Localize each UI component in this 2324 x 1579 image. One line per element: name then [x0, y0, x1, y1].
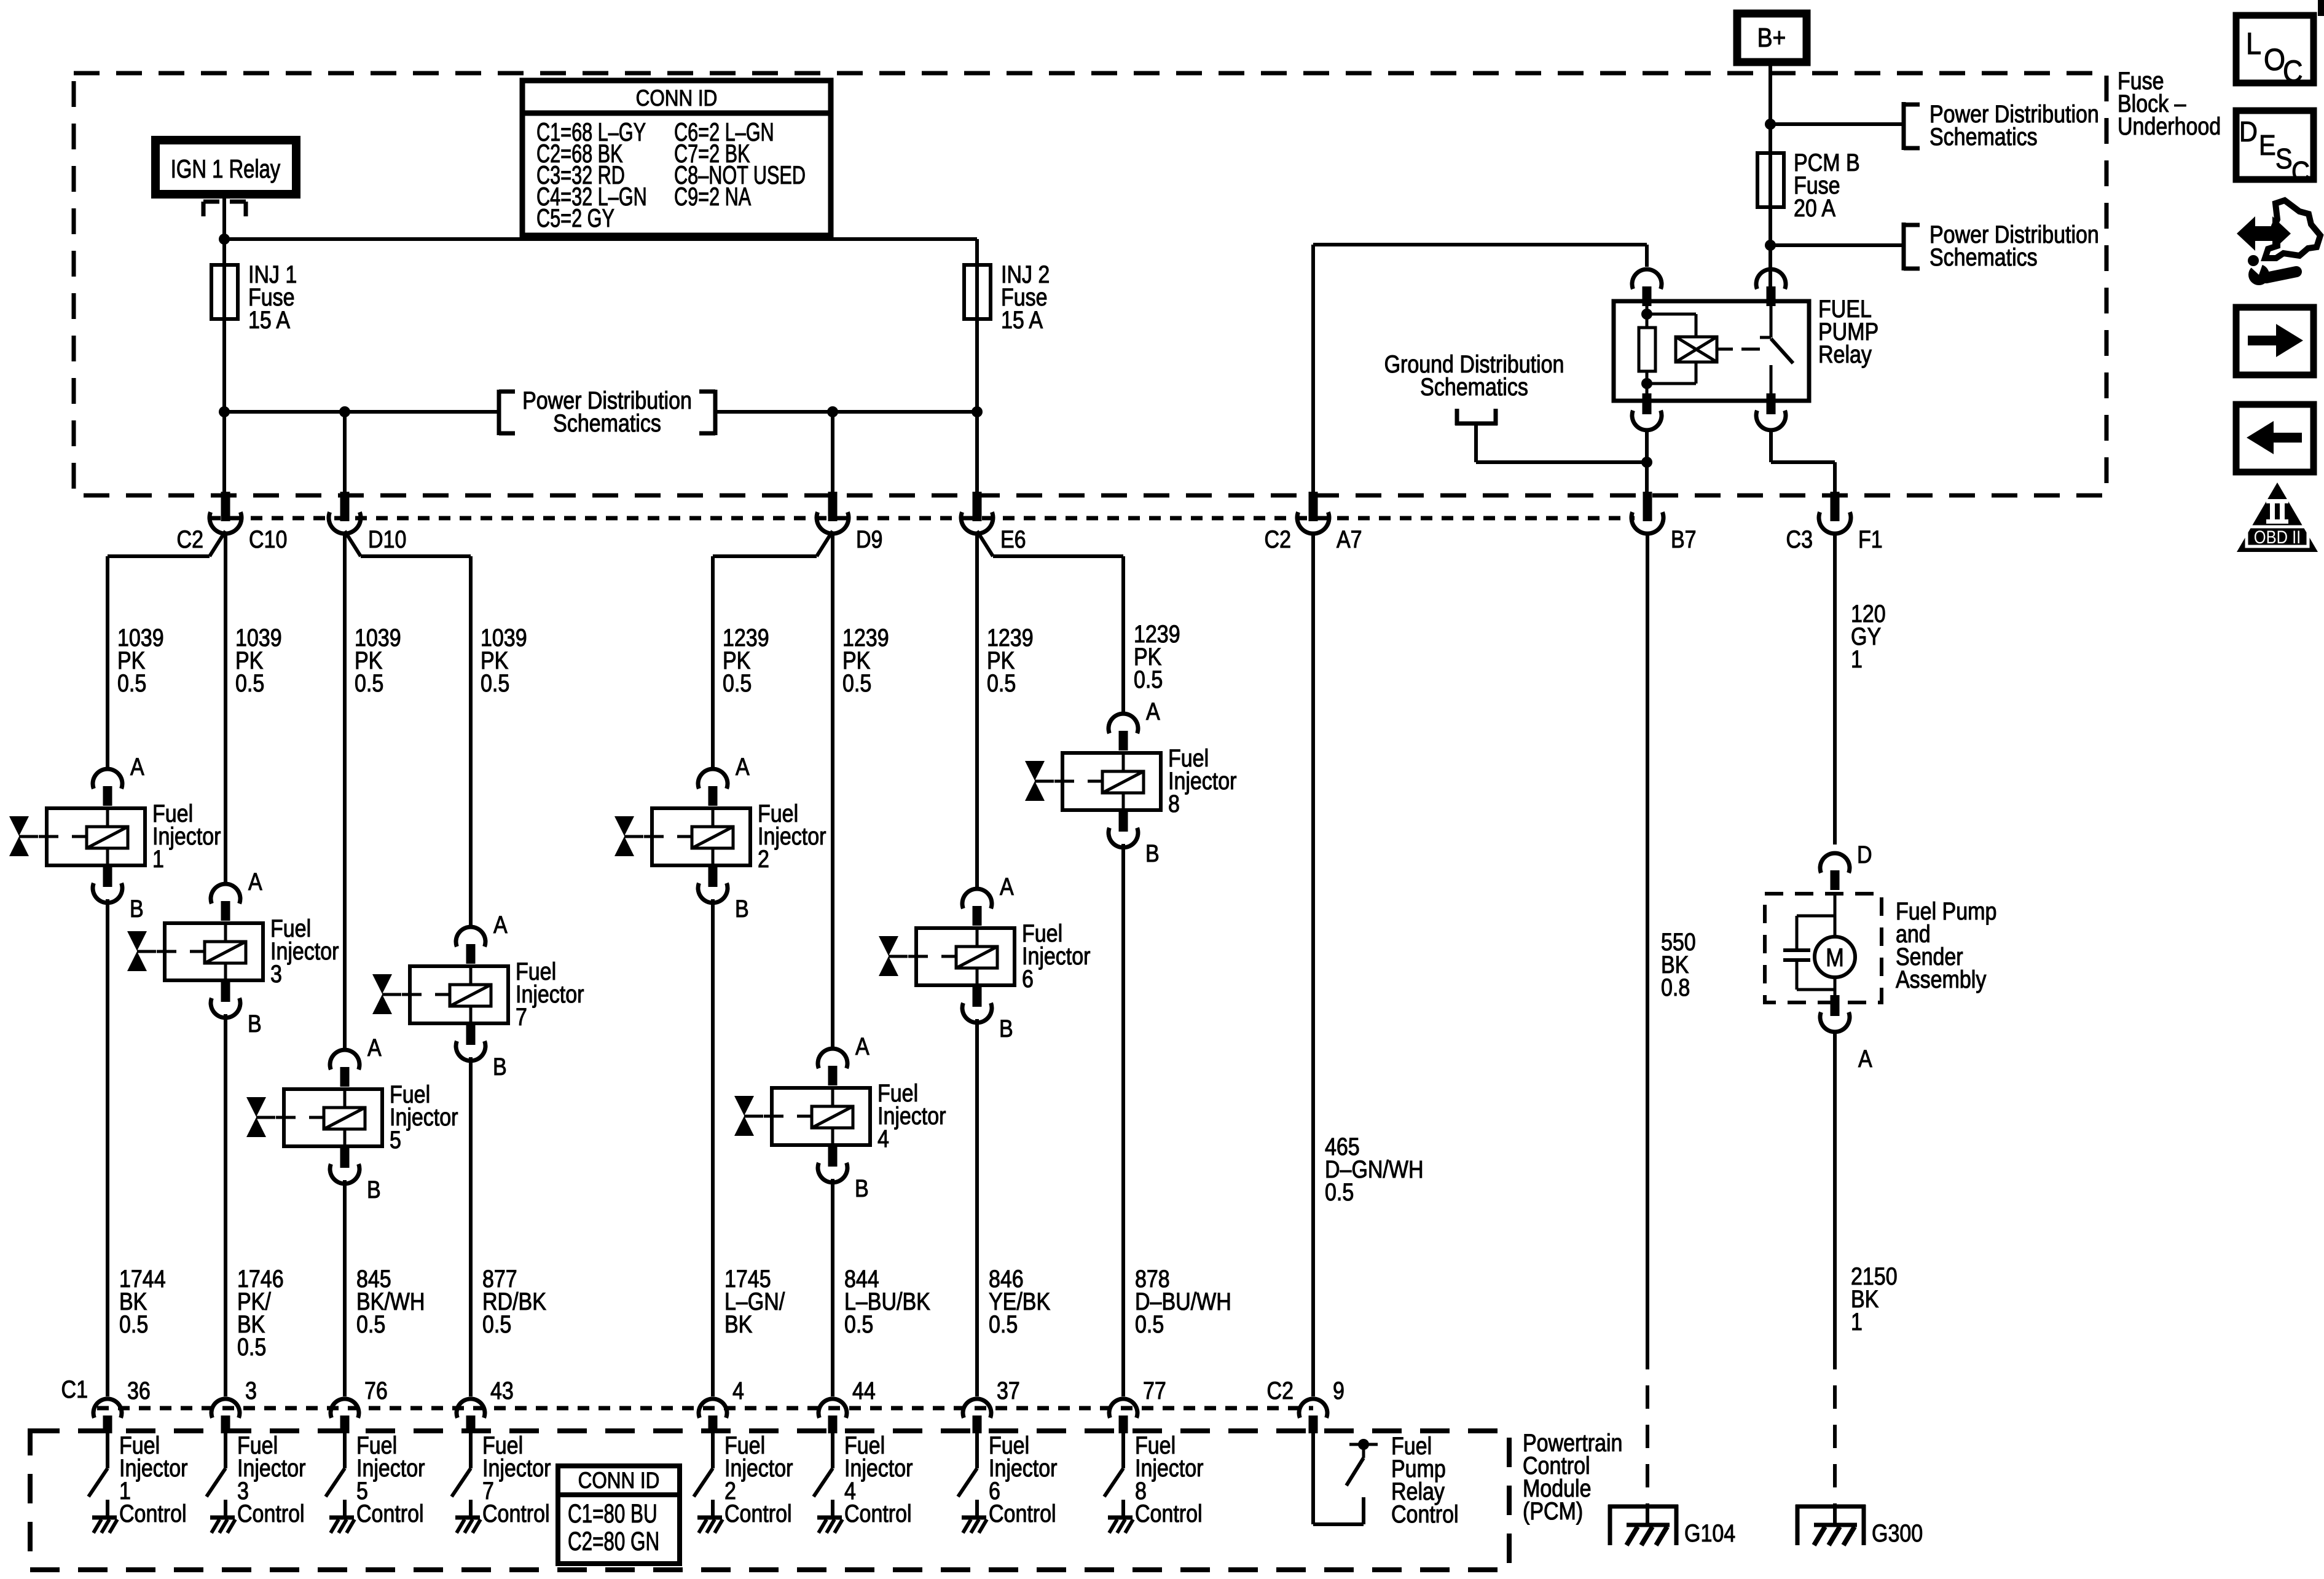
svg-text:B: B — [1145, 839, 1160, 867]
ground (PCM internal) — [817, 1516, 842, 1520]
svg-text:IGN 1 Relay: IGN 1 Relay — [171, 154, 281, 183]
svg-text:E: E — [2259, 130, 2276, 162]
svg-text:0.5: 0.5 — [723, 669, 752, 696]
svg-text:A: A — [1858, 1044, 1872, 1072]
svg-text:O: O — [2264, 43, 2285, 77]
svg-text:B: B — [999, 1014, 1013, 1042]
svg-text:C9=2 NA: C9=2 NA — [674, 182, 752, 211]
svg-text:S: S — [2275, 143, 2293, 175]
svg-text:B: B — [855, 1174, 869, 1202]
connector D10 — [340, 492, 350, 521]
wire to INJ 2 fuse — [224, 237, 977, 241]
svg-text:C2=80 GN: C2=80 GN — [568, 1526, 659, 1556]
svg-text:C1: C1 — [61, 1375, 88, 1403]
fuel injector 6 pin A — [962, 889, 992, 908]
previous page icon — [2236, 404, 2314, 472]
DESC icon — [2236, 111, 2314, 179]
svg-text:0.5: 0.5 — [482, 1310, 511, 1337]
junction — [1641, 378, 1652, 389]
fuel injector 8 — [1062, 753, 1161, 810]
fuel injector 2 pin A — [698, 769, 728, 789]
PCM fuel injector driver pin 37 — [975, 1433, 979, 1468]
svg-text:0.5: 0.5 — [235, 669, 264, 696]
svg-text:44: 44 — [852, 1376, 876, 1404]
svg-text:Control: Control — [844, 1499, 912, 1527]
fuse INJ 2 — [964, 265, 991, 319]
svg-text:1: 1 — [1851, 645, 1863, 672]
svg-text:B: B — [248, 1009, 262, 1037]
svg-text:4: 4 — [732, 1376, 744, 1404]
svg-text:CONN ID: CONN ID — [578, 1468, 660, 1494]
svg-text:0.5: 0.5 — [119, 1310, 148, 1337]
wire to injector 5 — [343, 532, 347, 1049]
fuel injector 3 — [165, 923, 263, 980]
wire to injector 3 — [224, 532, 227, 883]
svg-text:C3: C3 — [1786, 525, 1813, 553]
svg-text:Control: Control — [356, 1499, 424, 1527]
wire injector 3 to PCM 3 — [224, 1014, 227, 1396]
power distribution schematics ref (center) — [497, 390, 501, 435]
wire B7 to G104 (550) — [1646, 532, 1649, 1346]
svg-text:C2: C2 — [1267, 1376, 1294, 1404]
ground (PCM internal) — [455, 1516, 480, 1520]
svg-text:CONN ID: CONN ID — [636, 86, 718, 111]
svg-text:G300: G300 — [1872, 1519, 1923, 1546]
wire IGN1 relay down — [222, 194, 226, 495]
PCM connector dotted line — [97, 1406, 1313, 1411]
svg-text:A: A — [248, 867, 262, 895]
svg-text:A7: A7 — [1337, 525, 1362, 553]
svg-text:BK: BK — [724, 1310, 753, 1337]
svg-text:15 A: 15 A — [248, 305, 290, 333]
fuel injector 7 pin A — [456, 927, 485, 947]
ignition feed bus — [224, 410, 499, 414]
fuel injector 1 — [47, 808, 145, 865]
junction — [1765, 240, 1776, 251]
fuel injector 3 pin A — [211, 884, 240, 904]
svg-text:(PCM): (PCM) — [1523, 1497, 1583, 1524]
ground (PCM internal) — [92, 1516, 117, 1520]
PCM connector pin C2/9 — [1299, 1399, 1327, 1418]
svg-text:A: A — [493, 910, 508, 938]
ground (PCM internal) — [210, 1516, 235, 1520]
svg-text:C: C — [2283, 55, 2302, 89]
relay pin 86 out — [1643, 393, 1652, 414]
fuse block underhood dashed box — [74, 73, 2106, 495]
fuel pump and sender assembly — [1820, 853, 1850, 873]
fuel injector 4 pin B — [828, 1146, 838, 1167]
fuel injector 2 pin B — [709, 866, 718, 887]
svg-text:L: L — [2246, 27, 2261, 61]
fuel pump motor — [1815, 937, 1855, 977]
IGN 1 relay pin bracket — [202, 202, 206, 216]
CONN ID table (PCM) — [558, 1466, 680, 1564]
fuel injector 8 pin B — [1119, 811, 1128, 832]
svg-text:77: 77 — [1143, 1376, 1166, 1404]
wire injector 8 to PCM 77 — [1121, 844, 1125, 1396]
PCM dashed box — [30, 1431, 1509, 1570]
svg-text:8: 8 — [1168, 789, 1180, 817]
wire to injector 2 (branch) — [817, 531, 833, 556]
fuse PCM B — [1757, 153, 1784, 207]
svg-text:20 A: 20 A — [1794, 194, 1835, 221]
OBD II icon — [2237, 482, 2318, 552]
svg-text:A: A — [367, 1033, 382, 1061]
svg-text:4: 4 — [877, 1124, 889, 1152]
fuel injector 5 — [284, 1089, 382, 1146]
svg-text:0.5: 0.5 — [987, 669, 1016, 696]
ground (PCM internal) — [697, 1516, 722, 1520]
wire F1 to fuel pump (120 GY) — [1833, 532, 1837, 845]
svg-text:Schematics: Schematics — [1929, 122, 2038, 150]
svg-text:7: 7 — [516, 1002, 527, 1030]
PCM fuel injector driver pin 77 — [1121, 1433, 1125, 1468]
junction — [219, 234, 230, 245]
wire injector 2 to PCM 4 — [711, 899, 715, 1396]
fuel injector 7 pin B — [466, 1024, 476, 1045]
svg-text:D10: D10 — [368, 525, 406, 553]
svg-text:0.5: 0.5 — [1135, 1310, 1164, 1337]
ground (PCM internal) — [1108, 1516, 1133, 1520]
svg-text:0.5: 0.5 — [1325, 1178, 1354, 1205]
svg-text:0.5: 0.5 — [481, 669, 509, 696]
svg-text:Control: Control — [237, 1499, 305, 1527]
svg-text:A: A — [855, 1032, 870, 1060]
ground (PCM internal) — [329, 1516, 354, 1520]
svg-text:A: A — [1146, 697, 1160, 725]
PCM connector pin 76 — [331, 1399, 359, 1418]
LOC icon — [2236, 15, 2314, 83]
svg-text:15 A: 15 A — [1001, 305, 1043, 333]
svg-text:B: B — [367, 1175, 381, 1203]
wire injector 7 to PCM 43 — [469, 1057, 473, 1396]
wire to injector 7 (branch) — [345, 531, 361, 556]
fuse INJ 1 — [211, 265, 238, 319]
fuel injector 6 — [916, 928, 1015, 985]
fuel injector 2 — [652, 808, 750, 865]
svg-text:B: B — [735, 894, 749, 922]
PCM fuel injector driver pin 44 — [831, 1433, 834, 1468]
svg-text:43: 43 — [490, 1376, 514, 1404]
connector D9 — [828, 492, 838, 521]
svg-text:Control: Control — [1135, 1499, 1203, 1527]
fuel pump relay control driver — [1311, 1433, 1315, 1524]
svg-text:B7: B7 — [1671, 525, 1697, 553]
svg-text:0.5: 0.5 — [1134, 665, 1163, 693]
svg-text:Control: Control — [482, 1499, 550, 1527]
wire to injector 8 (branch) — [977, 531, 993, 556]
CONN ID table (underhood) — [522, 81, 831, 235]
svg-text:36: 36 — [127, 1376, 151, 1404]
svg-text:Schematics: Schematics — [1420, 372, 1528, 400]
PCM fuel injector driver pin 3 — [224, 1433, 227, 1468]
svg-text:Control: Control — [724, 1499, 792, 1527]
svg-text:Control: Control — [989, 1499, 1056, 1527]
junction — [1765, 119, 1776, 130]
PCM connector pin 44 — [819, 1399, 847, 1418]
page margin mark — [2318, 0, 2324, 16]
wire to injector 6 — [975, 532, 979, 889]
svg-text:0.5: 0.5 — [237, 1333, 266, 1360]
PCM fuel injector driver pin 4 — [711, 1433, 715, 1468]
svg-text:3: 3 — [245, 1376, 257, 1404]
svg-text:C1=80 BU: C1=80 BU — [568, 1498, 658, 1528]
svg-text:G104: G104 — [1684, 1519, 1735, 1546]
svg-text:Schematics: Schematics — [1929, 243, 2038, 270]
IGN 1 relay feed box — [155, 140, 296, 194]
svg-text:0.8: 0.8 — [1661, 973, 1690, 1001]
relay coil — [1647, 313, 1696, 316]
power distribution schematics ref 2 — [1902, 222, 1906, 270]
svg-text:5: 5 — [390, 1125, 401, 1153]
next page icon — [2236, 307, 2314, 375]
ground G300 — [1796, 1505, 1800, 1545]
svg-text:Relay: Relay — [1818, 340, 1872, 368]
svg-text:A: A — [1000, 872, 1014, 900]
wire injector 6 to PCM 37 — [975, 1019, 979, 1396]
svg-text:Control: Control — [119, 1499, 187, 1527]
wire D9 drop — [831, 412, 834, 495]
svg-text:0.5: 0.5 — [355, 669, 383, 696]
wire injector 1 to PCM 36 — [106, 899, 109, 1396]
PCM connector pin 36 — [93, 1399, 122, 1418]
svg-text:C: C — [2291, 156, 2310, 188]
svg-text:0.5: 0.5 — [989, 1310, 1018, 1337]
ground G104 — [1608, 1505, 1612, 1545]
svg-text:2: 2 — [758, 845, 769, 872]
connector B7 — [1643, 492, 1652, 521]
svg-text:D: D — [1857, 840, 1872, 868]
svg-text:E6: E6 — [1000, 525, 1026, 553]
fuel injector 7 — [410, 966, 508, 1023]
fuel injector 5 pin A — [330, 1050, 359, 1069]
svg-text:1: 1 — [152, 845, 164, 872]
fuel injector 4 pin A — [818, 1049, 847, 1068]
connector E6 — [973, 492, 982, 521]
svg-text:C10: C10 — [249, 525, 287, 553]
svg-text:A: A — [130, 752, 144, 780]
PCM connector pin 4 — [699, 1399, 727, 1418]
fuel injector 4 — [772, 1088, 870, 1145]
svg-text:A: A — [736, 752, 750, 780]
B+ battery feed — [1737, 14, 1807, 62]
wire B+ down to relay — [1769, 62, 1772, 302]
fuel injector 3 pin B — [221, 981, 230, 1002]
svg-text:Control: Control — [1391, 1500, 1459, 1527]
svg-text:D9: D9 — [856, 525, 882, 553]
svg-text:0.5: 0.5 — [356, 1310, 385, 1337]
fuel injector 1 pin B — [103, 866, 112, 887]
svg-text:F1: F1 — [1858, 525, 1883, 553]
FUEL PUMP relay — [1632, 269, 1662, 289]
fuel injector 1 pin A — [93, 769, 122, 789]
PCM fuel injector driver pin 43 — [469, 1433, 473, 1468]
wire injector 5 to PCM 76 — [343, 1180, 347, 1396]
fuel injector 6 pin B — [973, 986, 982, 1007]
wire to injector 1 (branch C2) — [210, 531, 226, 556]
svg-text:C2: C2 — [177, 525, 203, 553]
svg-text:D: D — [2239, 116, 2258, 148]
fuel pump capacitor — [1783, 948, 1810, 952]
wire to power distribution ref 2 — [1770, 243, 1904, 247]
svg-text:76: 76 — [364, 1376, 388, 1404]
fuel pump pin A — [1831, 995, 1840, 1016]
ground (PCM internal) — [962, 1516, 986, 1520]
svg-text:B: B — [130, 894, 144, 922]
svg-text:Schematics: Schematics — [553, 409, 661, 436]
wire to injector 4 — [831, 532, 834, 1049]
svg-text:C5=2 GY: C5=2 GY — [536, 203, 614, 232]
svg-text:37: 37 — [997, 1376, 1020, 1404]
wire injector 4 to PCM 44 — [831, 1179, 834, 1396]
svg-text:0.5: 0.5 — [844, 1310, 873, 1337]
wire to power distribution ref 1 — [1770, 122, 1904, 126]
svg-text:0.5: 0.5 — [842, 669, 871, 696]
connector C3/F1 — [1831, 492, 1840, 521]
svg-text:B+: B+ — [1757, 22, 1786, 53]
wire A7 to relay coil — [1311, 245, 1315, 495]
relay coil resistor — [1646, 371, 1649, 401]
PCM connector pin 77 — [1109, 1399, 1137, 1418]
wire INJ2 fuse down to E6 — [975, 239, 979, 495]
PCM connector pin 3 — [211, 1399, 240, 1418]
wire fuel pump to G300 (2150 BK) — [1833, 1032, 1837, 1346]
PCM fuel injector driver pin 36 — [106, 1433, 109, 1468]
fuel injector 8 pin A — [1109, 714, 1138, 733]
svg-text:M: M — [1826, 943, 1844, 972]
wire A7 to PCM 9 (465) — [1311, 532, 1315, 1396]
wire D10 drop — [343, 412, 347, 495]
connector C2/A7 — [1309, 492, 1318, 521]
PCM fuel injector driver pin 76 — [343, 1433, 347, 1468]
PCM connector pin 43 — [457, 1399, 485, 1418]
relay pin 87 out — [1767, 393, 1776, 414]
svg-text:3: 3 — [270, 959, 282, 987]
relay switch — [1770, 301, 1773, 337]
PCM connector pin 37 — [963, 1399, 991, 1418]
junction — [1641, 309, 1652, 320]
svg-text:6: 6 — [1022, 964, 1034, 992]
svg-text:B: B — [493, 1052, 507, 1080]
svg-text:9: 9 — [1333, 1376, 1345, 1404]
fuel injector 5 pin B — [340, 1147, 350, 1168]
connector C2/C10 — [221, 492, 230, 521]
svg-text:C2: C2 — [1265, 525, 1291, 553]
svg-text:Assembly: Assembly — [1896, 965, 1987, 993]
wire ground ref to relay pin 86 — [1474, 425, 1478, 462]
svg-text:Underhood: Underhood — [2118, 112, 2221, 140]
svg-text:1: 1 — [1851, 1307, 1863, 1335]
svg-text:OBD II: OBD II — [2254, 527, 2301, 547]
svg-text:0.5: 0.5 — [117, 669, 146, 696]
pan/zoom tool icon — [2265, 200, 2320, 258]
connector row at fuse block exit — [209, 516, 1635, 521]
power distribution schematics ref 1 — [1902, 102, 1906, 150]
